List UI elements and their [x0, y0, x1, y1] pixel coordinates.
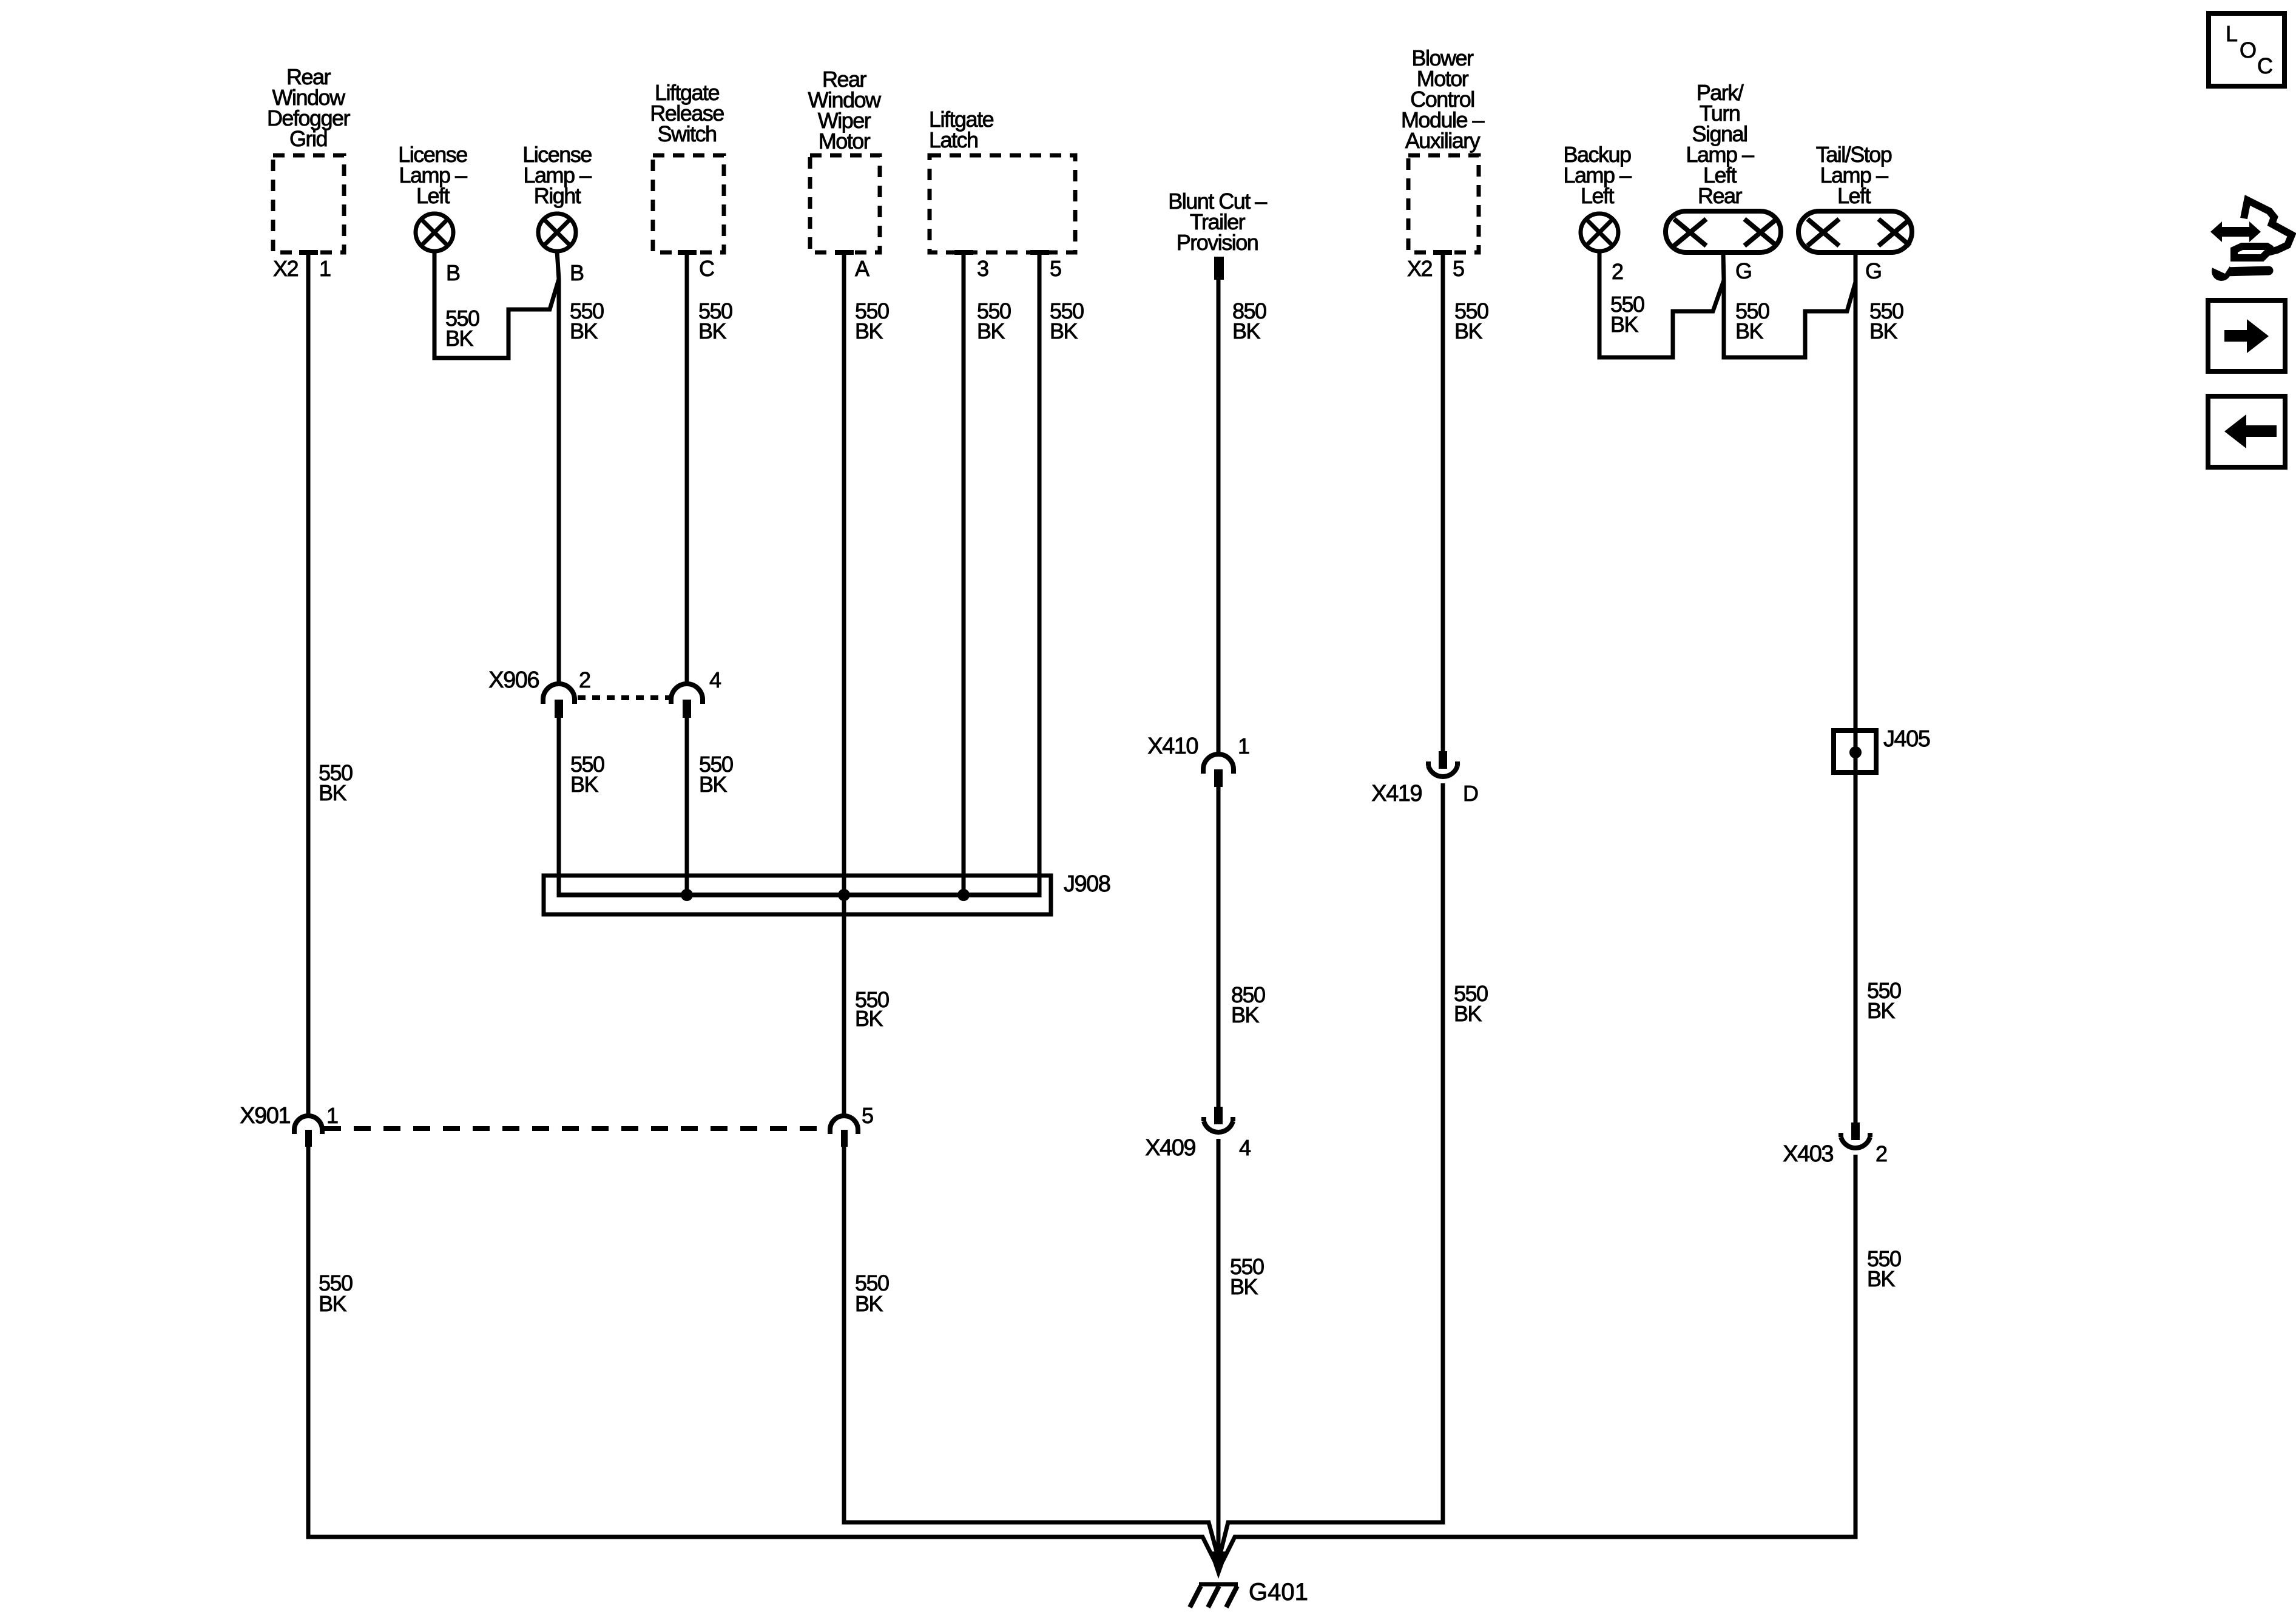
- connector label X419 / pin D: [1371, 781, 1478, 806]
- wire through J405: [1854, 731, 1858, 772]
- rear window defogger grid dashed box: [273, 155, 344, 252]
- svg-text:BK: BK: [1867, 998, 1896, 1023]
- liftgate release switch dashed box: [653, 155, 724, 252]
- svg-text:D: D: [1463, 781, 1478, 806]
- inline connector X410 (dome over square): [1203, 754, 1234, 787]
- lamp symbol: License Lamp - Right: [538, 214, 576, 251]
- component label: Blower Motor Control Module - Auxiliary: [1401, 46, 1485, 153]
- svg-text:BK: BK: [570, 319, 598, 343]
- inline connector X409 (square over cup): [1204, 1107, 1233, 1132]
- svg-text:BK: BK: [319, 1291, 347, 1316]
- svg-text:Right: Right: [534, 183, 581, 208]
- svg-text:BK: BK: [1869, 319, 1898, 343]
- svg-text:X906: X906: [488, 667, 539, 693]
- wire label 550 BK (license right mid): [570, 752, 604, 797]
- svg-text:BK: BK: [855, 1006, 883, 1031]
- wire label 550 BK (license right upper): [570, 299, 604, 343]
- component label: Backup Lamp - Left: [1563, 142, 1632, 208]
- wire: latch pin 5 down to J908 bar end: [1038, 254, 1042, 897]
- wire label 550 BK (wiper lower): [855, 1271, 889, 1316]
- svg-text:5: 5: [1453, 256, 1464, 281]
- svg-text:X409: X409: [1145, 1135, 1195, 1161]
- svg-text:J405: J405: [1883, 726, 1930, 752]
- dashed connector link X906: [578, 695, 670, 700]
- blower motor control module dashed box: [1408, 155, 1479, 252]
- svg-text:X419: X419: [1371, 781, 1422, 806]
- svg-text:Switch: Switch: [657, 121, 716, 146]
- svg-text:1: 1: [319, 256, 331, 281]
- svg-text:G: G: [1735, 258, 1752, 283]
- svg-text:BK: BK: [1232, 319, 1261, 343]
- pin labels 3 / 5 (latch): [977, 256, 1061, 281]
- svg-text:C: C: [699, 256, 714, 281]
- svg-text:Rear: Rear: [1698, 183, 1743, 208]
- svg-text:X403: X403: [1783, 1141, 1833, 1167]
- wire: license left lamp jog to right lamp wire: [434, 251, 559, 358]
- svg-text:BK: BK: [1454, 319, 1483, 343]
- svg-text:A: A: [855, 256, 869, 281]
- svg-text:BK: BK: [1735, 319, 1764, 343]
- svg-text:Latch: Latch: [929, 127, 978, 152]
- wire: license right lamp down to X906 pin 2: [557, 251, 559, 684]
- svg-text:X901: X901: [240, 1103, 290, 1129]
- svg-text:2: 2: [579, 667, 590, 692]
- connector label X410 / pin 1: [1147, 734, 1249, 759]
- wire: blower down to X419: [1441, 254, 1445, 751]
- component label: Liftgate Release Switch: [650, 80, 724, 146]
- svg-text:BK: BK: [977, 319, 1005, 343]
- component label: License Lamp - Right: [522, 142, 592, 208]
- wire label 550 BK (latch 5): [1050, 299, 1084, 343]
- svg-text:BK: BK: [1454, 1001, 1482, 1026]
- wire label 550 BK (defogger lower): [319, 1271, 353, 1316]
- svg-text:BK: BK: [699, 772, 728, 797]
- wire: park/turn lamp jog to tail/stop wire: [1723, 254, 1855, 357]
- double-headed arrow: [2210, 221, 2261, 242]
- wire: X906 pin2 down to J908 bar: [557, 718, 561, 897]
- component label: Rear Window Defogger Grid: [267, 64, 351, 151]
- inline connector X901 pin 1 (dome, square terminal): [294, 1116, 322, 1147]
- component label: Blunt Cut - Trailer Provision: [1168, 189, 1267, 255]
- junction dot (release switch wire on J908): [681, 889, 693, 901]
- svg-text:O: O: [2240, 38, 2256, 62]
- junction dot (wiper wire on J908): [838, 889, 850, 901]
- lamp symbol: Backup Lamp - Left: [1581, 214, 1618, 251]
- svg-text:Left: Left: [1581, 183, 1615, 208]
- inline connector X901 pin 5 (dome, square terminal): [830, 1116, 858, 1147]
- svg-text:Motor: Motor: [819, 129, 871, 154]
- svg-text:X410: X410: [1147, 734, 1198, 759]
- svg-text:BK: BK: [1050, 319, 1078, 343]
- ground arrowhead G401: [1209, 1551, 1228, 1579]
- wire: X410 down to X409: [1217, 787, 1221, 1107]
- splice pack J908 box: [544, 876, 1051, 914]
- connector label X901 and pins 1 / 5: [240, 1103, 873, 1129]
- svg-text:4: 4: [1239, 1135, 1251, 1160]
- wire label 850 BK (blunt cut mid): [1231, 982, 1265, 1027]
- wire label 550 BK (release switch mid): [699, 752, 733, 797]
- wire: latch pin 3 down to J908 bar: [962, 254, 966, 895]
- dashed connector link X901: [324, 1126, 828, 1131]
- junction dot (latch 3 wire on J908): [957, 889, 970, 901]
- svg-text:5: 5: [862, 1103, 873, 1128]
- wire: X403 down to lower ground bus: [1223, 1155, 1855, 1561]
- wire label 550 BK (latch 3): [977, 299, 1011, 343]
- wire label 550 BK (tail/stop mid): [1867, 978, 1901, 1023]
- wire: X901 pin5 down to upper ground bus: [844, 1147, 1217, 1551]
- wire label 850 BK (blunt cut upper): [1232, 299, 1266, 343]
- svg-text:BK: BK: [855, 1291, 883, 1316]
- connector label X409 / pin 4: [1145, 1135, 1251, 1161]
- svg-text:L: L: [2226, 21, 2237, 46]
- component label: Liftgate Latch: [929, 107, 994, 152]
- svg-text:4: 4: [709, 667, 721, 692]
- component label: Rear Window Wiper Motor: [808, 67, 882, 154]
- lamp symbol: Tail/Stop Lamp (oval with two X): [1798, 211, 1912, 252]
- svg-text:C: C: [2257, 53, 2272, 78]
- wire: release switch down to X906 pin 4: [685, 254, 689, 684]
- wire label 550 BK (wiper upper): [855, 299, 889, 343]
- svg-text:BK: BK: [1610, 312, 1639, 337]
- pin stub: defogger X2-1: [299, 250, 318, 255]
- wire label 550 BK (blower mid): [1454, 981, 1488, 1026]
- wire label 550 BK (defogger upper): [319, 760, 353, 805]
- ground symbol G401: [1190, 1584, 1238, 1607]
- component label: Park/Turn Signal Lamp - Left Rear: [1686, 80, 1754, 208]
- svg-text:Auxiliary: Auxiliary: [1405, 128, 1481, 153]
- component label: Tail/Stop Lamp - Left: [1816, 142, 1892, 208]
- lamp symbol: License Lamp - Left: [416, 214, 453, 251]
- pin stub: wiper motor A: [835, 250, 854, 255]
- wire label 550 BK (tail/stop upper): [1869, 299, 1903, 343]
- wire: wiper motor down through J908 to X901 pin 5: [842, 254, 846, 1116]
- wire: X901 pin1 down to lower ground bus: [308, 1147, 1215, 1561]
- svg-text:BK: BK: [319, 780, 347, 805]
- wire: defogger down to X901 pin 1: [306, 254, 311, 1116]
- wire: X419 down to upper ground bus: [1221, 783, 1443, 1551]
- wire label 550 BK (release switch upper): [698, 299, 732, 343]
- svg-text:B: B: [570, 260, 584, 285]
- inline connector X403 (square over cup): [1841, 1122, 1870, 1148]
- wrench: [2212, 262, 2231, 281]
- svg-text:Left: Left: [1837, 183, 1871, 208]
- svg-text:BK: BK: [855, 319, 883, 343]
- svg-text:BK: BK: [1867, 1266, 1896, 1291]
- svg-text:1: 1: [1238, 734, 1249, 758]
- svg-text:3: 3: [977, 256, 988, 281]
- svg-text:Left: Left: [416, 183, 450, 208]
- pin labels X2 / 5 (blower): [1407, 256, 1464, 281]
- icon: car adjust (double arrow, car outline, wrench): [2209, 200, 2292, 281]
- inline connector X419 (square over cup): [1428, 751, 1457, 777]
- svg-text:1: 1: [326, 1103, 338, 1128]
- svg-text:Grid: Grid: [289, 126, 327, 151]
- splice J405 box: [1834, 731, 1876, 772]
- rear window wiper motor dashed box: [810, 155, 880, 252]
- pin stub: release switch C: [678, 250, 697, 255]
- inline connector X906 pin 2 (dome, square terminal): [543, 684, 575, 718]
- splice bar J908: [559, 893, 1039, 897]
- wire label 550 BK (X403 lower): [1867, 1246, 1901, 1291]
- svg-text:X2: X2: [1407, 256, 1433, 281]
- wire: blunt cut down to X410: [1217, 280, 1221, 755]
- pin stub: blower X2-5: [1433, 250, 1452, 255]
- svg-text:BK: BK: [445, 326, 474, 351]
- connector label X403 / pin 2: [1783, 1141, 1887, 1167]
- pin stub: latch 3: [954, 250, 973, 255]
- svg-text:BK: BK: [1230, 1274, 1258, 1299]
- pin labels X2 / 1 (defogger): [273, 256, 331, 281]
- wire label 550 BK (license left): [445, 306, 479, 351]
- wire label 550 BK (park/turn): [1735, 299, 1769, 343]
- component label: License Lamp - Left: [398, 142, 467, 208]
- svg-text:B: B: [446, 260, 460, 285]
- blunt cut terminal bar: [1214, 257, 1224, 280]
- pin stub: latch 5: [1030, 250, 1049, 255]
- car outline: [2234, 200, 2292, 258]
- svg-text:G: G: [1865, 258, 1882, 283]
- connector label X906 and pin numbers 2 / 4: [488, 667, 721, 693]
- svg-text:2: 2: [1876, 1141, 1887, 1166]
- wire: X409 down to ground arrow: [1217, 1139, 1221, 1571]
- wire label 550 BK (X409 lower): [1230, 1254, 1264, 1299]
- wire: J405 down to X403: [1854, 772, 1858, 1122]
- wire label 550 BK (backup lamp): [1610, 292, 1644, 337]
- svg-text:2: 2: [1612, 259, 1623, 284]
- lamp symbol: Park/Turn Signal Lamp (oval with two X): [1666, 211, 1781, 252]
- inline connector X906 pin 4 (dome, square terminal): [671, 684, 703, 718]
- junction dot J405: [1849, 746, 1862, 758]
- wire: tail/stop lamp down to J405: [1854, 254, 1858, 731]
- wire label 550 BK (blower upper): [1454, 299, 1488, 343]
- icon: left arrow box: [2208, 396, 2285, 467]
- svg-text:BK: BK: [698, 319, 727, 343]
- svg-text:5: 5: [1050, 256, 1061, 281]
- svg-text:J908: J908: [1064, 871, 1110, 897]
- icon: right arrow box: [2208, 300, 2285, 371]
- svg-text:X2: X2: [273, 256, 299, 281]
- svg-text:G401: G401: [1249, 1579, 1308, 1605]
- svg-text:Provision: Provision: [1177, 230, 1258, 255]
- liftgate latch dashed box: [930, 155, 1075, 252]
- svg-text:BK: BK: [570, 772, 599, 797]
- svg-text:BK: BK: [1231, 1002, 1260, 1027]
- wire: X906 pin4 down to J908 bar: [685, 718, 689, 895]
- wire: backup lamp jog to park/turn wire: [1599, 251, 1724, 357]
- icon: LOC box (top right): [2209, 13, 2284, 86]
- wire label 550 BK (wiper below J908): [855, 987, 889, 1031]
